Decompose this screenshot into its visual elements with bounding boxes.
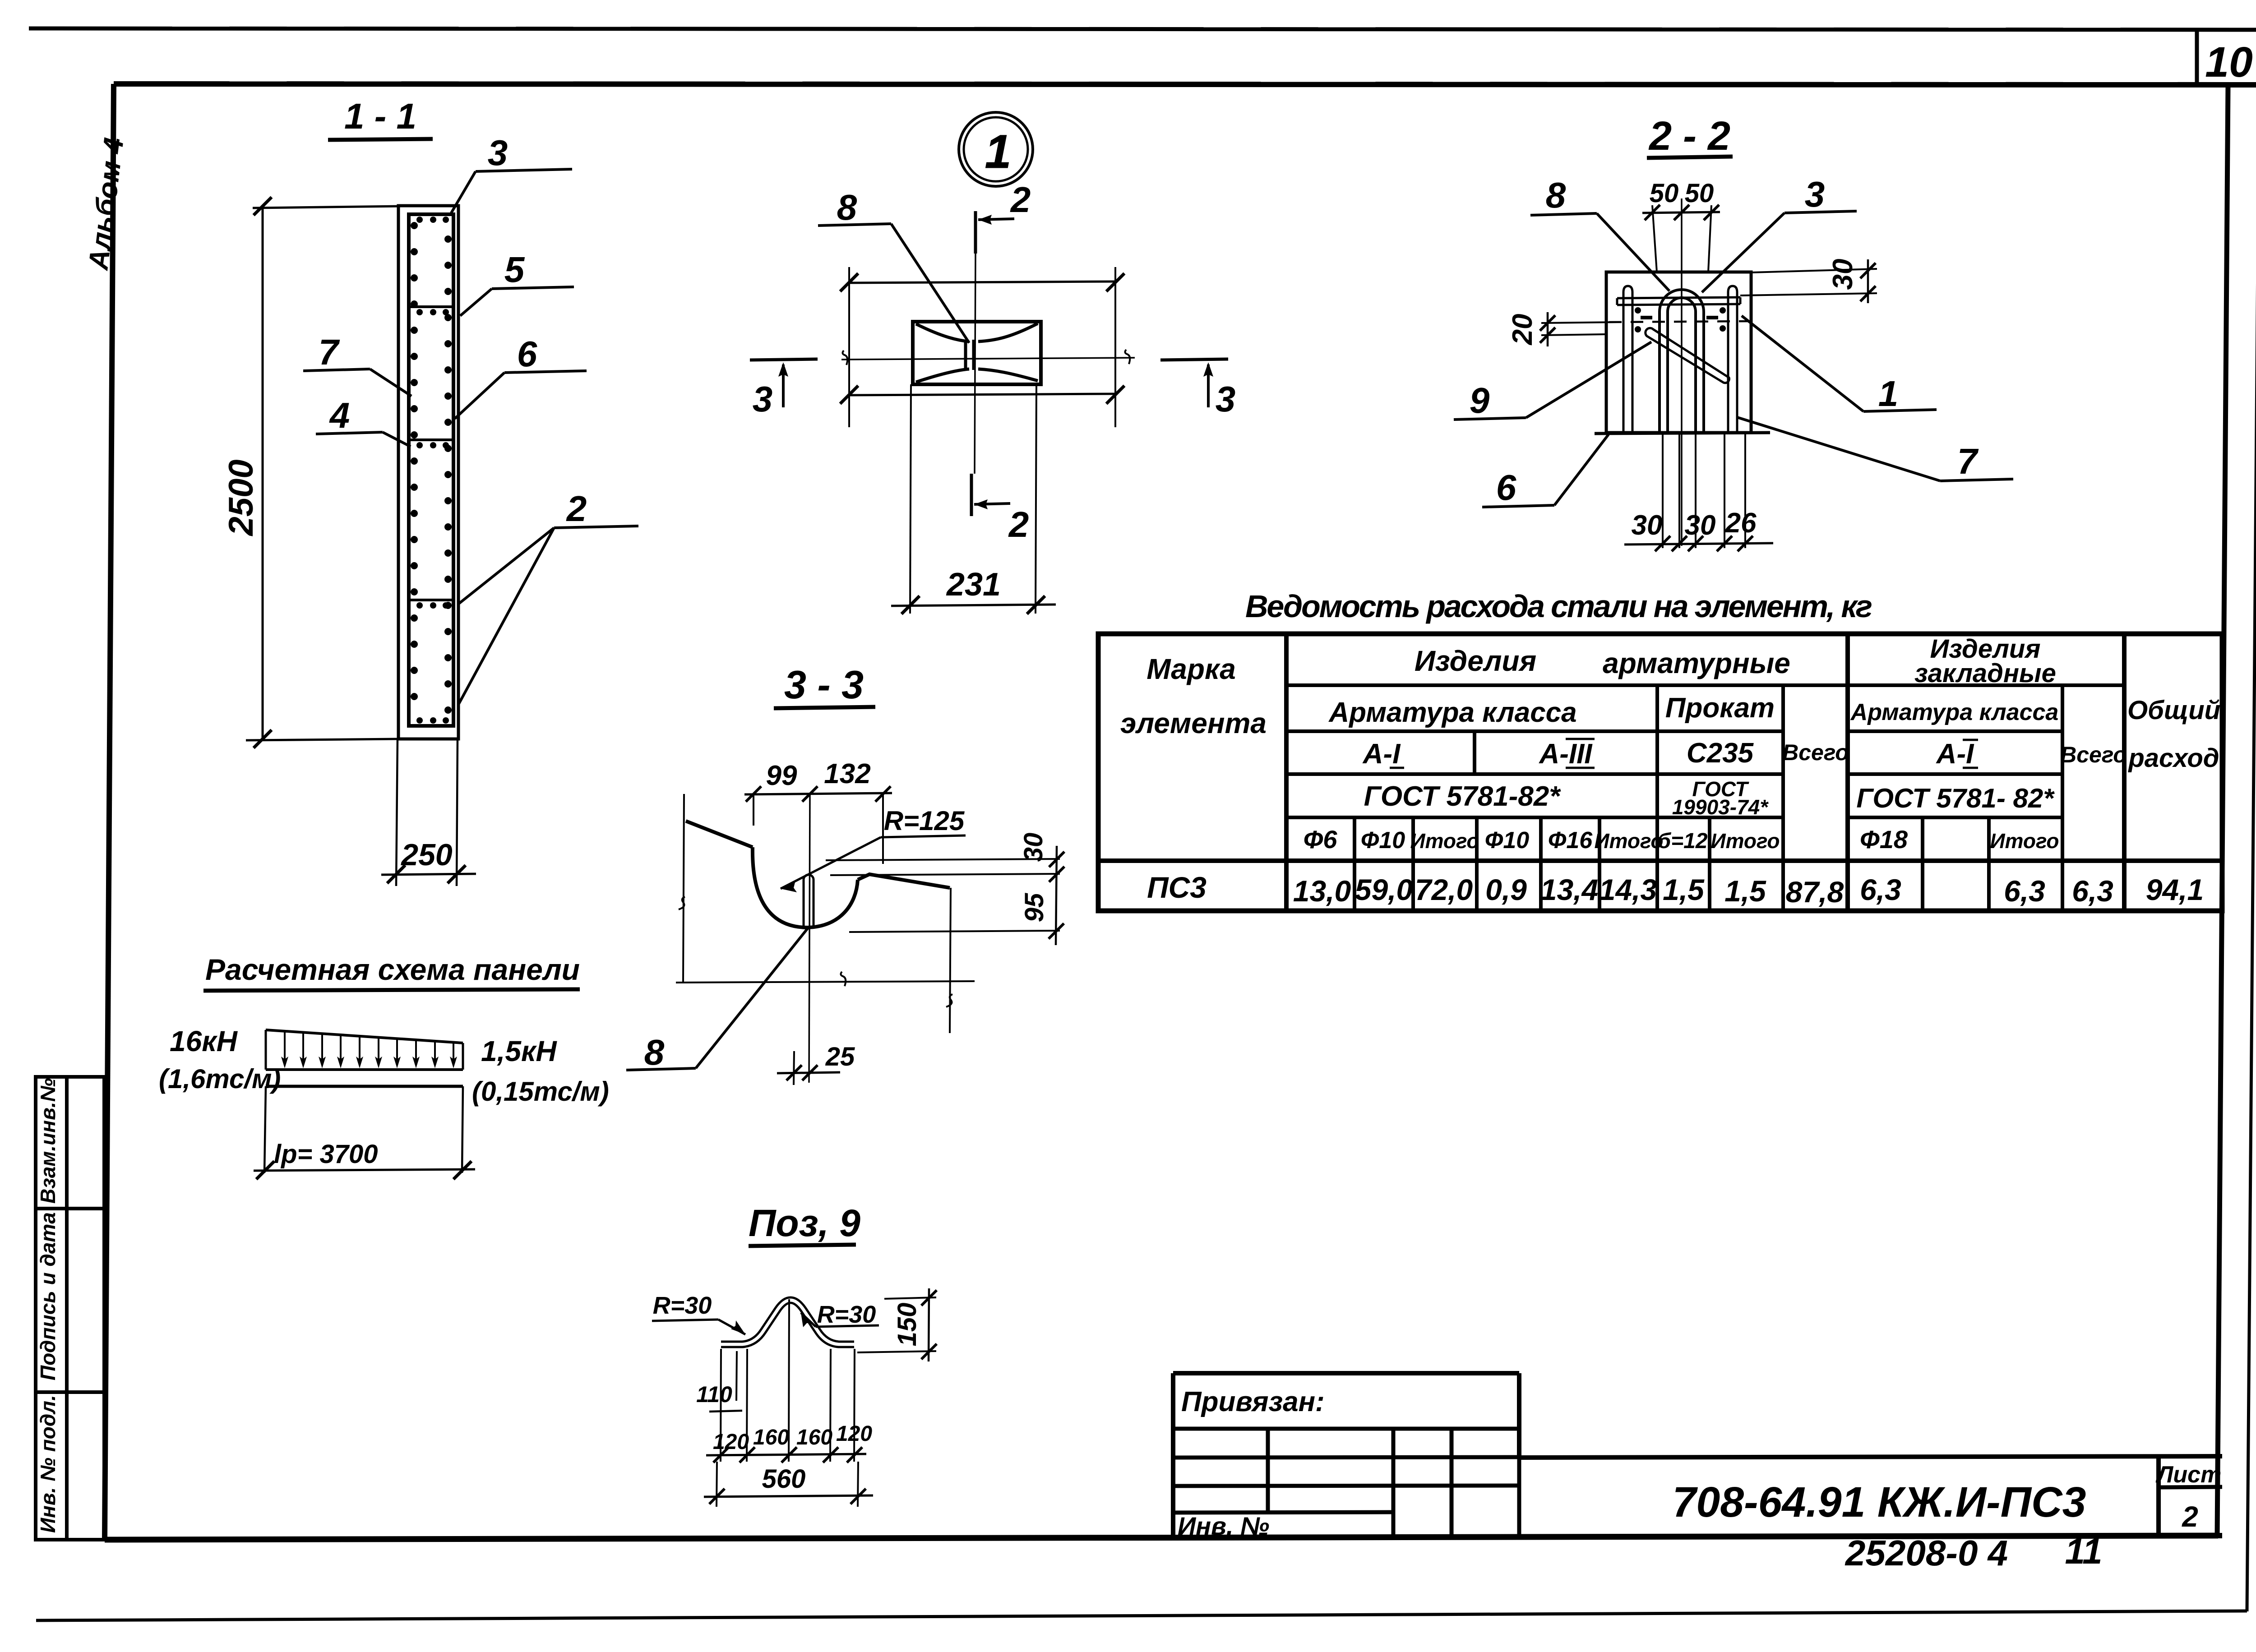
svg-text:1 - 1: 1 - 1: [344, 96, 416, 136]
svg-text:С235: С235: [1687, 738, 1754, 769]
callout 8 (2-2): [1530, 175, 1669, 291]
svg-text:99: 99: [766, 760, 797, 791]
svg-text:закладные: закладные: [1914, 659, 2056, 688]
svg-text:8: 8: [644, 1032, 665, 1072]
horizontal y3 left: [1286, 772, 1783, 776]
svg-text:59,0: 59,0: [1355, 873, 1413, 906]
detail circle 1: [959, 112, 1033, 186]
load arrows: [281, 1031, 457, 1068]
svg-text:8: 8: [1546, 175, 1566, 215]
svg-text:Взам.инв.№: Взам.инв.№: [36, 1078, 60, 1204]
svg-text:ПС3: ПС3: [1147, 871, 1207, 904]
horizontal y4 right: [1848, 816, 2062, 819]
svg-text:Итого: Итого: [1410, 829, 1479, 853]
svg-text:Привязан:: Привязан:: [1181, 1386, 1325, 1417]
horizontal y5 full (top of data row): [1098, 858, 2222, 863]
svg-text:2: 2: [566, 489, 587, 529]
vertical centreline of plan: [975, 254, 975, 474]
svg-text:б=12: б=12: [1657, 829, 1707, 853]
svg-text:0,9: 0,9: [1485, 873, 1527, 906]
vertical x5: [1539, 817, 1543, 911]
svg-text:3: 3: [1216, 379, 1236, 419]
section mark 2 (bottom): [971, 474, 1029, 545]
R=125 label: [781, 806, 966, 892]
title strip: [1519, 1456, 2222, 1537]
diagonal bar (item 9): [1646, 328, 1729, 383]
left construction line: [679, 794, 685, 982]
svg-text:арматурные: арматурные: [1603, 647, 1790, 679]
horizontal y2 left: [1286, 729, 1783, 733]
vertical x1: [1284, 634, 1289, 911]
svg-text:3: 3: [753, 379, 773, 419]
bottom construction line: [676, 972, 975, 986]
scheme title: [203, 953, 580, 991]
table title: [1245, 589, 1872, 624]
svg-text:Всего: Всего: [2060, 742, 2127, 767]
sheet number box "10": [2197, 29, 2253, 86]
callout 9 (2-2): [1454, 342, 1651, 420]
centreline of loop (vertical): [1681, 198, 1683, 546]
callout 7 (2-2): [1737, 417, 2013, 481]
dim 50 50 (top): [1642, 179, 1720, 272]
svg-text:2500: 2500: [222, 459, 260, 536]
svg-text:1,5: 1,5: [1724, 874, 1766, 908]
svg-text:1,5: 1,5: [1663, 873, 1705, 906]
svg-text:110: 110: [696, 1382, 732, 1407]
vertical x4 lower: [1475, 817, 1479, 911]
beam: [266, 1070, 463, 1086]
callout 7: [303, 332, 411, 396]
vertical x7: [1655, 685, 1659, 911]
svg-text:1: 1: [985, 125, 1011, 178]
callout 4: [316, 395, 411, 447]
svg-text:1: 1: [1878, 374, 1899, 414]
vertical x10: [1845, 634, 1850, 911]
vertical bar left (item 7): [1623, 286, 1632, 433]
svg-text:1,5кН: 1,5кН: [481, 1035, 557, 1067]
dims 99 132: [744, 758, 892, 864]
section 2-2 concrete body: [1595, 272, 1770, 434]
section marks 3-3 on centreline: [750, 359, 818, 419]
sheet outer bottom edge: [36, 1611, 2247, 1620]
svg-text:А-I: А-I: [1362, 738, 1401, 770]
table header texts: [1120, 634, 2220, 854]
sheet top edge line: [29, 28, 2256, 30]
svg-text:Арматура класса: Арматура класса: [1850, 699, 2059, 725]
horizontal y4 left: [1286, 816, 1783, 819]
svg-text:R=30: R=30: [817, 1301, 876, 1328]
left stamp column: [36, 1077, 104, 1540]
svg-text:Подпись и дата: Подпись и дата: [36, 1212, 60, 1380]
svg-text:ГОСТ 5781-82*: ГОСТ 5781-82*: [1364, 781, 1562, 812]
svg-text:А-III: А-III: [1538, 738, 1593, 770]
svg-text:Ф10: Ф10: [1361, 827, 1405, 854]
svg-text:6,3: 6,3: [1860, 873, 1901, 906]
svg-text:7: 7: [319, 332, 340, 372]
right load label: [472, 1035, 609, 1107]
section mark 2 (top): [975, 180, 1031, 254]
vertical bar right (item 7): [1728, 286, 1737, 433]
table data row: [1147, 871, 2204, 909]
svg-text:150: 150: [892, 1303, 922, 1347]
svg-text:7: 7: [1957, 441, 1979, 481]
table grid: [1098, 634, 2222, 911]
span dim lp=3700: [254, 1140, 475, 1179]
view title 1-1: [328, 96, 433, 140]
svg-text:30: 30: [1827, 259, 1858, 290]
upper width dim line: [840, 267, 1124, 427]
svg-text:2: 2: [1010, 180, 1031, 220]
svg-text:3: 3: [488, 133, 508, 173]
vertical x13: [2061, 685, 2064, 911]
svg-text:10: 10: [2205, 38, 2253, 86]
svg-text:560: 560: [762, 1464, 806, 1494]
svg-text:Изделия: Изделия: [1415, 645, 1536, 677]
dim 560: [704, 1462, 873, 1507]
svg-text:Расчетная схема панели: Расчетная схема панели: [205, 953, 580, 986]
svg-text:50: 50: [1685, 179, 1714, 208]
callout 1 (2-2): [1742, 316, 1937, 414]
svg-text:Ф18: Ф18: [1860, 825, 1908, 854]
vertical x12: [1987, 817, 1991, 911]
svg-text:5: 5: [504, 249, 525, 290]
right construction line: [946, 888, 952, 1033]
dim 30 (right): [1740, 259, 1877, 303]
svg-text:6,3: 6,3: [2072, 874, 2113, 908]
svg-text:R=30: R=30: [653, 1292, 712, 1319]
callout 3 (2-2): [1702, 174, 1857, 292]
svg-text:Итого: Итого: [1990, 829, 2059, 853]
rebar cage dividers: [409, 307, 453, 600]
Привязан box: [1173, 1373, 1519, 1538]
callout 8 (plan): [818, 187, 969, 343]
svg-text:708-64.91 КЖ.И-ПС3: 708-64.91 КЖ.И-ПС3: [1673, 1478, 2086, 1526]
dimension 231: [891, 384, 1056, 614]
callout 3 (top): [451, 133, 572, 213]
load envelope: [266, 1030, 463, 1070]
view title 2-2: [1647, 114, 1733, 159]
right level dims 30 / 95: [826, 833, 1064, 945]
svg-text:14,3: 14,3: [1599, 873, 1657, 906]
svg-text:8: 8: [837, 187, 857, 227]
vertical x14: [2122, 634, 2127, 911]
svg-text:Итого: Итого: [1711, 829, 1780, 853]
svg-text:120: 120: [836, 1422, 872, 1446]
dimension 250: [381, 739, 476, 886]
svg-text:120: 120: [713, 1430, 749, 1454]
svg-text:Ф6: Ф6: [1304, 825, 1338, 854]
svg-text:Общий: Общий: [2127, 696, 2220, 725]
R=30 right label: [801, 1301, 879, 1328]
svg-text:231: 231: [946, 567, 1001, 603]
dim 150 (pos9): [857, 1288, 937, 1361]
svg-text:50: 50: [1650, 179, 1679, 208]
vertical x4 upper: [1473, 731, 1476, 774]
svg-text:Итого: Итого: [1595, 829, 1664, 853]
svg-text:30: 30: [1632, 510, 1663, 541]
svg-text:расход: расход: [2127, 743, 2219, 773]
svg-text:А-I: А-I: [1936, 738, 1974, 770]
svg-text:lp= 3700: lp= 3700: [274, 1140, 378, 1169]
svg-text:6,3: 6,3: [2004, 874, 2045, 908]
svg-text:13,0: 13,0: [1293, 874, 1351, 908]
svg-text:6: 6: [1496, 467, 1516, 508]
svg-text:30: 30: [1685, 510, 1716, 541]
horizontal y3 right: [1848, 772, 2062, 776]
svg-text:3 - 3: 3 - 3: [784, 662, 864, 707]
supports / span extension lines: [264, 1086, 463, 1173]
svg-text:(1,6тс/м): (1,6тс/м): [159, 1064, 281, 1094]
bent bar pos9: [721, 1300, 854, 1344]
svg-text:9: 9: [1470, 380, 1490, 420]
svg-text:R=125: R=125: [884, 806, 965, 836]
svg-text:2 - 2: 2 - 2: [1648, 114, 1730, 159]
svg-text:Арматура класса: Арматура класса: [1328, 697, 1576, 728]
callout 6 (2-2): [1482, 434, 1609, 508]
callout 6: [455, 334, 587, 419]
view title 3-3: [774, 662, 875, 708]
bottom dims 30 30 26: [1624, 434, 1773, 551]
left load label: [159, 1025, 281, 1094]
vertical x8: [1708, 817, 1711, 911]
svg-text:Ф16: Ф16: [1548, 827, 1593, 854]
svg-text:16кН: 16кН: [170, 1025, 238, 1057]
svg-text:ГОСТ 5781- 82*: ГОСТ 5781- 82*: [1856, 783, 2055, 813]
plate bolts: [1635, 307, 1726, 332]
dim 25 (slot): [777, 1042, 855, 1085]
vertical x11: [1921, 817, 1924, 911]
svg-text:94,1: 94,1: [2146, 873, 2204, 906]
svg-text:Всего: Всего: [1782, 740, 1849, 765]
svg-text:160: 160: [796, 1426, 832, 1449]
svg-text:4: 4: [329, 395, 350, 435]
svg-text:Инв. № подл.: Инв. № подл.: [36, 1395, 60, 1533]
vertical x3: [1411, 817, 1415, 911]
svg-text:6: 6: [517, 334, 537, 374]
svg-text:Марка: Марка: [1146, 653, 1236, 685]
centreline vertical 3-3: [809, 794, 810, 1083]
svg-text:26: 26: [1725, 508, 1757, 539]
svg-text:132: 132: [824, 758, 870, 789]
svg-text:19903-74*: 19903-74*: [1672, 795, 1769, 819]
callout 2 (two leaders): [459, 489, 638, 704]
svg-text:3: 3: [1805, 174, 1825, 214]
dim row 120 160 160 120: [706, 1422, 872, 1463]
plan rectangle (keyway element): [913, 322, 1041, 384]
horizontal y1: [1286, 683, 2124, 687]
svg-text:87,8: 87,8: [1786, 875, 1844, 909]
svg-text:13,4: 13,4: [1540, 873, 1598, 906]
stirrup dots: [411, 217, 452, 724]
pos9 extension lines: [721, 1299, 855, 1462]
horizontal centreline with break marks: [841, 350, 1135, 365]
svg-text:250: 250: [400, 838, 453, 872]
outer box: [1098, 634, 2222, 911]
hidden dashed line: [1609, 321, 1749, 322]
vertical x2: [1353, 817, 1356, 911]
anchor plate (item 1): [1617, 297, 1740, 305]
callout 5: [460, 249, 574, 316]
svg-text:72,0: 72,0: [1415, 873, 1473, 906]
mini dim 110: [696, 1351, 742, 1412]
pos9 title: [749, 1202, 860, 1246]
hairpin slot in 3-3 (item 8): [804, 875, 814, 926]
dimension 2500: [222, 197, 402, 748]
svg-text:Ф10: Ф10: [1485, 827, 1530, 854]
svg-text:(0,15тс/м): (0,15тс/м): [472, 1076, 609, 1107]
svg-text:2: 2: [1008, 504, 1029, 545]
keyway profile 3-3: [686, 821, 950, 928]
horizontal y2 right: [1848, 729, 2062, 733]
svg-text:Поз, 9: Поз, 9: [749, 1202, 860, 1244]
svg-text:95: 95: [1020, 893, 1049, 922]
svg-text:30: 30: [1019, 833, 1048, 862]
dim 20 (left): [1507, 312, 1617, 346]
vertical x6: [1598, 817, 1601, 911]
panel outline 1-1: [398, 206, 458, 739]
sheet outer right edge: [2247, 29, 2256, 1611]
svg-text:Лист: Лист: [2155, 1462, 2222, 1488]
svg-text:25: 25: [825, 1042, 855, 1071]
svg-text:Ведомость расхода стали на: Ведомость расхода стали на элемент, кг: [1245, 589, 1872, 624]
svg-text:11: 11: [2065, 1531, 2102, 1571]
keyway curves: [916, 323, 1038, 382]
svg-text:160: 160: [753, 1426, 789, 1449]
callout 8 (3-3): [626, 928, 808, 1072]
svg-text:элемента: элемента: [1120, 707, 1267, 739]
svg-text:Прокат: Прокат: [1665, 692, 1775, 724]
R=30 left label: [652, 1292, 745, 1334]
hairpin loop (item 8): [1660, 290, 1704, 433]
svg-text:Инв. №: Инв. №: [1178, 1512, 1269, 1540]
svg-text:20: 20: [1507, 314, 1538, 346]
svg-text:2: 2: [2182, 1500, 2198, 1533]
vertical x9: [1781, 685, 1785, 911]
svg-text:25208-0 4: 25208-0 4: [1845, 1533, 2008, 1573]
